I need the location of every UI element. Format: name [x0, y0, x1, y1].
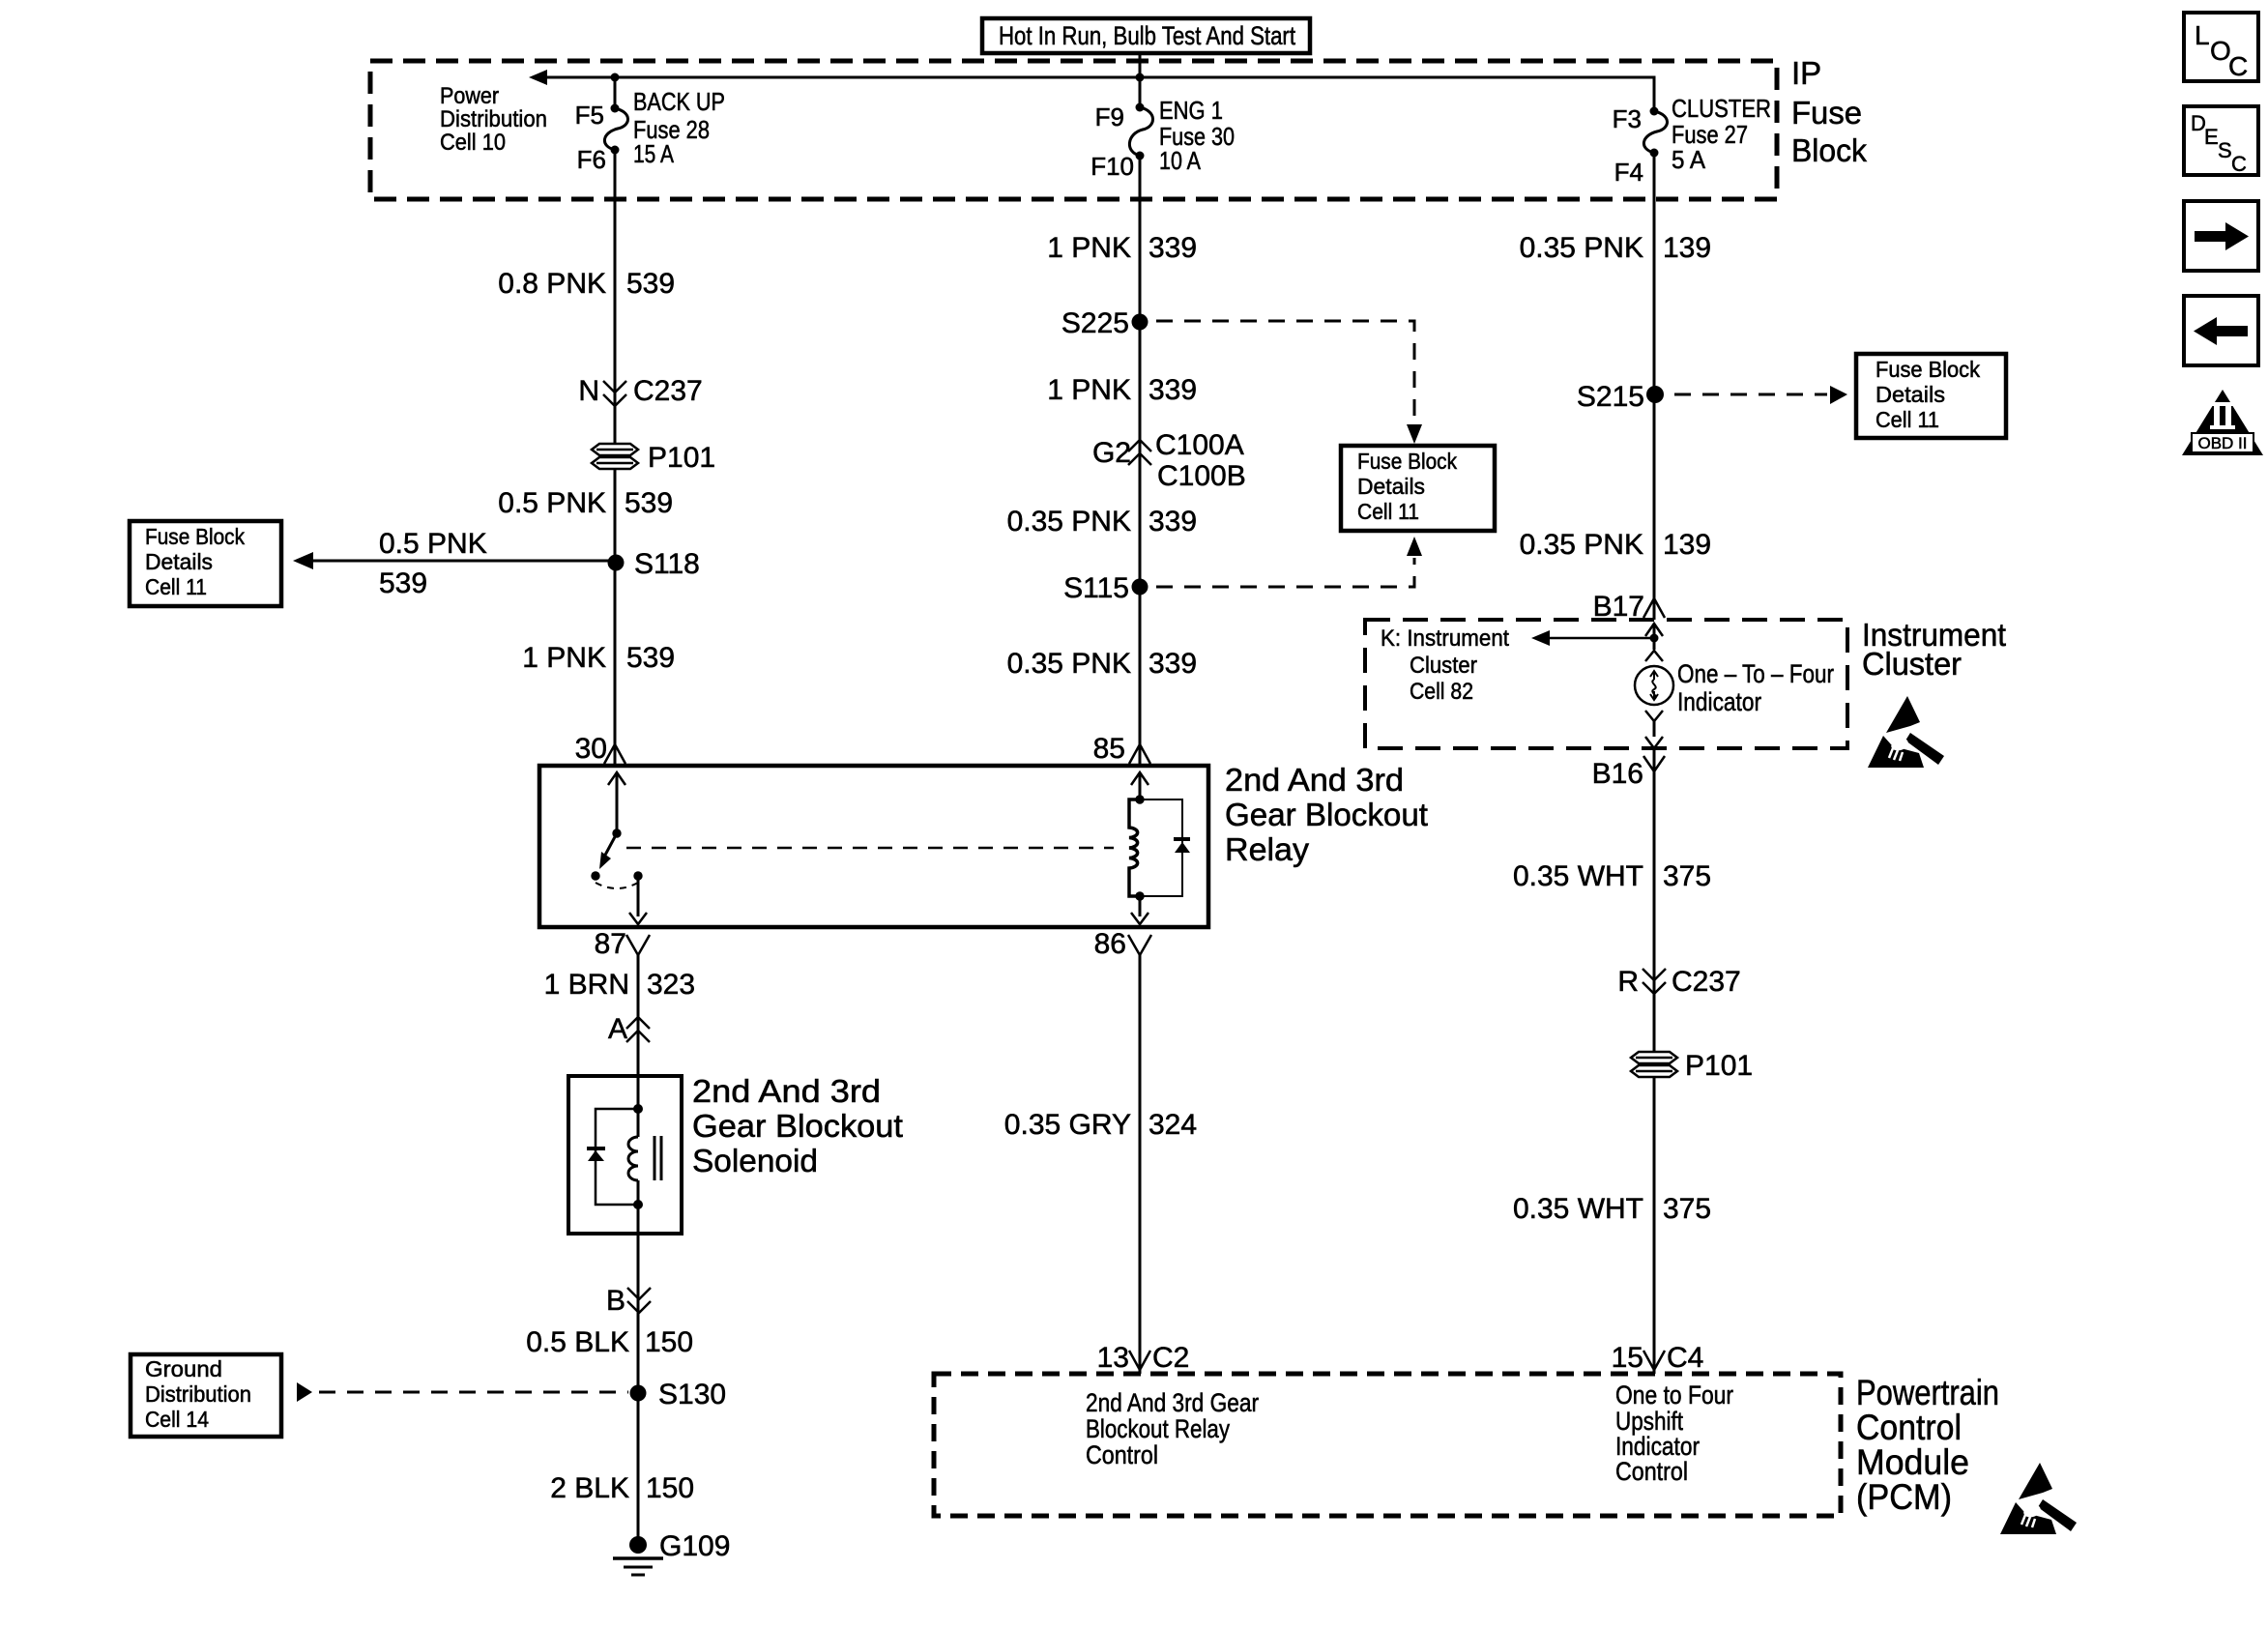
svg-text:1 PNK: 1 PNK — [1047, 232, 1131, 264]
svg-text:F4: F4 — [1614, 158, 1643, 187]
svg-text:0.35 PNK: 0.35 PNK — [1520, 232, 1643, 264]
instrument cluster label — [1862, 617, 2006, 682]
node bus-F5 — [611, 73, 620, 82]
svg-text:539: 539 — [379, 567, 427, 599]
pin 87 — [595, 928, 650, 960]
svg-text:Cell 14: Cell 14 — [145, 1407, 209, 1432]
svg-text:Fuse Block: Fuse Block — [1357, 449, 1457, 474]
svg-text:Cluster: Cluster — [1410, 653, 1477, 679]
svg-text:F9: F9 — [1095, 102, 1124, 131]
svg-text:0.35 PNK: 0.35 PNK — [1007, 506, 1131, 538]
svg-text:2nd And 3rd: 2nd And 3rd — [1225, 762, 1404, 798]
Powertrain Control Module (PCM) label — [1856, 1373, 1999, 1517]
svg-text:Blockout Relay: Blockout Relay — [1086, 1414, 1230, 1443]
fuse F9/F10 ENG 1 Fuse 30 10A — [1090, 77, 1235, 181]
IP fuse block dashed box — [370, 61, 1777, 199]
svg-text:10 A: 10 A — [1159, 146, 1202, 175]
svg-text:R: R — [1617, 966, 1639, 998]
wire 87 to solenoid — [637, 955, 640, 1076]
svg-text:S115: S115 — [1063, 572, 1129, 604]
svg-text:(PCM): (PCM) — [1856, 1477, 1952, 1517]
pass-through P101 left — [592, 442, 715, 474]
svg-text:15 A: 15 A — [633, 139, 675, 168]
svg-text:S130: S130 — [658, 1379, 726, 1410]
node S115 — [1063, 572, 1148, 604]
svg-text:C237: C237 — [1672, 966, 1741, 998]
dashed wire S115 to fuse block details — [1156, 537, 1422, 587]
wire lamp to box bottom — [1645, 711, 1663, 748]
bus wire — [529, 70, 1654, 111]
svg-text:Indicator: Indicator — [1677, 687, 1761, 716]
svg-text:Cell 11: Cell 11 — [145, 574, 207, 599]
indicator lamp One-To-Four — [1635, 659, 1834, 716]
pin 13 C2 — [1097, 1342, 1190, 1374]
label 0.5 PNK 539 — [498, 487, 673, 519]
label 0.35 WHT 375 (upper) — [1513, 860, 1711, 892]
wire from title box to bus — [1139, 53, 1142, 77]
svg-text:85: 85 — [1093, 733, 1125, 765]
solenoid coil — [587, 1076, 661, 1234]
pass-through P101 right — [1631, 1050, 1753, 1082]
svg-text:0.5 PNK: 0.5 PNK — [379, 528, 487, 560]
svg-text:0.5 BLK: 0.5 BLK — [526, 1326, 629, 1358]
ground G109 — [613, 1530, 730, 1575]
svg-text:N: N — [578, 375, 599, 407]
svg-text:0.35 WHT: 0.35 WHT — [1513, 1193, 1643, 1225]
connector A — [608, 1013, 650, 1045]
node bus-F9 — [1136, 73, 1145, 82]
svg-text:C100A: C100A — [1155, 429, 1244, 461]
svg-text:C: C — [2228, 51, 2248, 81]
svg-text:2 BLK: 2 BLK — [550, 1472, 629, 1504]
svg-text:C237: C237 — [633, 375, 703, 407]
svg-text:Cell 82: Cell 82 — [1410, 679, 1473, 705]
svg-text:339: 339 — [1149, 506, 1197, 538]
svg-text:One to Four: One to Four — [1615, 1381, 1733, 1410]
svg-text:Details: Details — [145, 549, 213, 574]
fuse F3/F4 CLUSTER Fuse 27 5A — [1613, 94, 1771, 187]
svg-text:Module: Module — [1856, 1442, 1969, 1482]
svg-text:Powertrain: Powertrain — [1856, 1373, 1999, 1412]
pin B17 — [1593, 591, 1665, 623]
svg-text:C100B: C100B — [1157, 460, 1246, 492]
svg-text:375: 375 — [1663, 860, 1711, 892]
svg-text:B: B — [606, 1285, 625, 1317]
connector G2 C100A C100B — [1092, 429, 1246, 492]
svg-text:P101: P101 — [648, 442, 715, 474]
label 0.35 PNK 139 (upper) — [1520, 232, 1711, 264]
svg-text:F10: F10 — [1090, 152, 1134, 181]
dashed link switch to coil — [626, 847, 1114, 850]
svg-text:150: 150 — [645, 1326, 693, 1358]
svg-text:P101: P101 — [1685, 1050, 1753, 1082]
wire right column F4 to instrument cluster — [1653, 153, 1656, 620]
label 0.5 BLK 150 — [526, 1326, 693, 1358]
svg-text:B16: B16 — [1592, 758, 1643, 790]
svg-text:S215: S215 — [1577, 381, 1644, 413]
title box: Hot In Run, Bulb Test And Start — [982, 18, 1310, 53]
left arrow icon — [2184, 296, 2258, 365]
svg-text:Distribution: Distribution — [440, 106, 547, 132]
svg-text:F6: F6 — [577, 145, 606, 174]
svg-text:Details: Details — [1357, 474, 1425, 499]
svg-text:CLUSTER: CLUSTER — [1672, 94, 1771, 123]
wire instrument cluster to PCM — [1653, 748, 1656, 1374]
wire branch S118 to fuse block details — [293, 528, 616, 599]
connector B — [606, 1285, 651, 1317]
svg-text:ENG 1: ENG 1 — [1159, 96, 1223, 125]
label 2 BLK 150 — [550, 1472, 694, 1504]
LOC icon — [2184, 13, 2258, 81]
dashed wire ground distribution to S130 — [297, 1382, 628, 1402]
svg-text:Fuse: Fuse — [1791, 95, 1862, 131]
svg-text:323: 323 — [647, 969, 695, 1001]
pin 30 — [575, 733, 625, 765]
svg-text:324: 324 — [1149, 1109, 1197, 1141]
svg-text:Details: Details — [1875, 382, 1945, 407]
svg-text:Gear Blockout: Gear Blockout — [692, 1108, 903, 1144]
label 1 PNK 539 — [522, 642, 675, 674]
box Fuse Block Details Cell 11 (middle) — [1341, 446, 1495, 531]
svg-text:30: 30 — [575, 733, 607, 765]
IP Fuse Block label — [1791, 55, 1867, 168]
svg-text:BACK UP: BACK UP — [633, 87, 725, 116]
wire solenoid to ground — [637, 1234, 640, 1545]
fuse F5/F6 BACK UP Fuse 28 15A — [575, 77, 725, 174]
svg-text:Ground: Ground — [145, 1356, 222, 1381]
pin 15 C4 — [1612, 1342, 1704, 1374]
node S118 — [608, 548, 700, 580]
svg-text:Distribution: Distribution — [145, 1381, 251, 1407]
svg-text:2nd And 3rd Gear: 2nd And 3rd Gear — [1086, 1388, 1259, 1417]
svg-text:Fuse Block: Fuse Block — [145, 524, 245, 549]
K: Instrument Cluster Cell 82 label — [1381, 625, 1509, 705]
label 0.35 PNK 139 (lower) — [1520, 529, 1711, 561]
svg-text:339: 339 — [1149, 374, 1197, 406]
svg-text:0.35 PNK: 0.35 PNK — [1007, 648, 1131, 680]
label 1 PNK 339 (upper) — [1047, 232, 1197, 264]
svg-text:0.8 PNK: 0.8 PNK — [498, 268, 606, 300]
svg-text:One – To – Four: One – To – Four — [1677, 659, 1834, 688]
ESD symbol instrument cluster — [1868, 696, 1944, 768]
connector R C237 — [1617, 966, 1740, 998]
svg-text:1 PNK: 1 PNK — [1047, 374, 1131, 406]
wire 86 to PCM — [1139, 955, 1142, 1374]
svg-text:539: 539 — [626, 268, 675, 300]
svg-text:Control: Control — [1856, 1408, 1962, 1447]
svg-text:15: 15 — [1612, 1342, 1643, 1374]
svg-text:0.35 WHT: 0.35 WHT — [1513, 860, 1643, 892]
OBD II icon — [2182, 390, 2263, 455]
svg-text:Cell 11: Cell 11 — [1875, 407, 1939, 432]
DESC icon — [2184, 106, 2258, 176]
svg-text:G109: G109 — [659, 1530, 730, 1562]
svg-text:OBD II: OBD II — [2197, 434, 2247, 452]
svg-text:Fuse Block: Fuse Block — [1875, 357, 1980, 382]
svg-text:K: Instrument: K: Instrument — [1381, 625, 1509, 652]
svg-text:1 BRN: 1 BRN — [544, 969, 629, 1001]
svg-text:0.5 PNK: 0.5 PNK — [498, 487, 606, 519]
svg-text:C4: C4 — [1667, 1342, 1703, 1374]
node S225 — [1061, 307, 1149, 339]
relay coil — [1129, 772, 1190, 924]
label 0.8 PNK 539 — [498, 268, 675, 300]
svg-text:Power: Power — [440, 83, 499, 109]
svg-text:S: S — [2218, 138, 2232, 162]
svg-text:Cluster: Cluster — [1862, 646, 1962, 682]
node S130 — [630, 1379, 727, 1410]
svg-text:2nd And 3rd: 2nd And 3rd — [692, 1073, 881, 1109]
svg-text:139: 139 — [1663, 529, 1711, 561]
svg-text:Cell 10: Cell 10 — [440, 130, 506, 156]
svg-text:E: E — [2204, 125, 2219, 149]
svg-text:G2: G2 — [1092, 437, 1131, 469]
svg-text:Block: Block — [1791, 132, 1867, 168]
svg-text:Hot In Run, Bulb Test And Star: Hot In Run, Bulb Test And Start — [999, 21, 1295, 50]
label 0.35 WHT 375 (lower) — [1513, 1193, 1711, 1225]
svg-text:539: 539 — [626, 642, 675, 674]
ESD symbol PCM — [2000, 1463, 2077, 1534]
PCM pin label 2nd And 3rd Gear Blockout Relay Control — [1086, 1388, 1259, 1469]
svg-text:Solenoid: Solenoid — [692, 1143, 818, 1178]
svg-text:S118: S118 — [634, 548, 700, 580]
PCM pin label One to Four Upshift Indicator Control — [1615, 1381, 1733, 1486]
svg-text:IP: IP — [1791, 55, 1821, 91]
svg-text:L: L — [2195, 20, 2210, 50]
relay box: 2nd And 3rd Gear Blockout Relay — [539, 766, 1208, 927]
PCM dashed box — [934, 1374, 1841, 1516]
svg-text:375: 375 — [1663, 1193, 1711, 1225]
svg-text:Relay: Relay — [1225, 831, 1310, 867]
pin 85 — [1093, 733, 1150, 765]
relay label — [1225, 762, 1428, 867]
connector N C237 — [578, 375, 702, 407]
solenoid box: 2nd And 3rd Gear Blockout Solenoid — [568, 1073, 903, 1234]
svg-text:539: 539 — [625, 487, 673, 519]
svg-text:139: 139 — [1663, 232, 1711, 264]
svg-text:Gear Blockout: Gear Blockout — [1225, 797, 1428, 832]
svg-text:Cell 11: Cell 11 — [1357, 499, 1419, 524]
pin B16 — [1592, 756, 1665, 790]
right arrow icon — [2184, 201, 2258, 271]
svg-text:1 PNK: 1 PNK — [522, 642, 606, 674]
svg-text:339: 339 — [1149, 232, 1197, 264]
svg-text:150: 150 — [646, 1472, 694, 1504]
svg-text:C2: C2 — [1152, 1342, 1189, 1374]
svg-text:S225: S225 — [1061, 307, 1129, 339]
box Fuse Block Details Cell 11 (left) — [130, 521, 281, 606]
svg-text:339: 339 — [1149, 648, 1197, 680]
label 0.35 PNK 339 (third) — [1007, 506, 1197, 538]
svg-text:Control: Control — [1086, 1440, 1158, 1469]
svg-text:87: 87 — [595, 928, 626, 960]
svg-text:F5: F5 — [575, 101, 604, 130]
label 1 BRN 323 — [544, 969, 695, 1001]
label 1 PNK 339 (second) — [1047, 374, 1197, 406]
node S215 — [1577, 381, 1664, 413]
pin 86 — [1094, 928, 1151, 960]
svg-text:C: C — [2231, 152, 2247, 176]
wire middle column F10 to relay — [1139, 156, 1142, 766]
dashed wire S215 to fuse block details — [1674, 386, 1847, 404]
wire left column F6 to relay — [614, 150, 617, 766]
dashed wire S225 to fuse block details — [1156, 321, 1422, 444]
box Ground Distribution Cell 14 — [131, 1354, 281, 1437]
Power Distribution Cell 10 label — [440, 83, 547, 156]
box Fuse Block Details Cell 11 (right) — [1856, 354, 2006, 438]
svg-text:86: 86 — [1094, 928, 1126, 960]
svg-text:0.35 GRY: 0.35 GRY — [1004, 1109, 1131, 1141]
svg-text:5 A: 5 A — [1672, 145, 1706, 174]
svg-text:Control: Control — [1615, 1457, 1688, 1486]
svg-text:A: A — [608, 1013, 627, 1045]
label 0.35 GRY 324 — [1004, 1109, 1197, 1141]
svg-text:0.35 PNK: 0.35 PNK — [1520, 529, 1643, 561]
label 0.35 PNK 339 (fourth) — [1007, 648, 1197, 680]
wire into instrument cluster with arrow to K — [1531, 624, 1663, 661]
relay switch — [591, 772, 647, 924]
instrument cluster dashed box — [1365, 620, 1847, 748]
svg-text:F3: F3 — [1613, 104, 1642, 133]
svg-text:13: 13 — [1097, 1342, 1129, 1374]
